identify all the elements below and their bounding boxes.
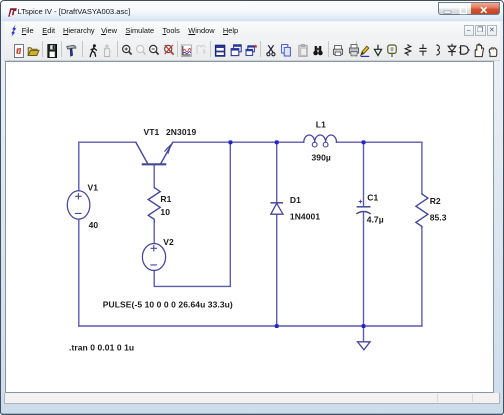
- inductor L1: [304, 135, 337, 142]
- svg-text:D1: D1: [290, 195, 301, 205]
- ground symbol: [358, 342, 371, 350]
- svg-text:.tran 0 0.01 0 1u: .tran 0 0.01 0 1u: [69, 342, 134, 352]
- node dot D1 bottom: [275, 324, 279, 328]
- svg-text:4.7µ: 4.7µ: [367, 215, 384, 225]
- svg-text:L1: L1: [316, 119, 326, 129]
- svg-text:390µ: 390µ: [312, 152, 331, 162]
- svg-text:R1: R1: [160, 194, 171, 204]
- node dot emitter junction: [229, 140, 233, 144]
- capacitor C1 plates: [357, 206, 371, 208]
- resistor R2: [416, 194, 428, 228]
- LTspice logo: [7, 7, 18, 18]
- voltage source V1: [67, 191, 90, 219]
- svg-text:1N4001: 1N4001: [290, 212, 320, 222]
- diode D1: [270, 202, 283, 204]
- svg-text:85.3: 85.3: [430, 212, 447, 222]
- wire V2 return loop: [154, 142, 230, 286]
- wire V1 branch: [78, 142, 80, 326]
- svg-text:C1: C1: [367, 193, 378, 203]
- svg-text:V2: V2: [163, 237, 174, 247]
- svg-text:R2: R2: [430, 196, 441, 206]
- wire R1 to V2: [153, 222, 155, 244]
- node dot C1 top: [362, 140, 366, 144]
- resistor R1: [148, 188, 160, 222]
- svg-text:2N3019: 2N3019: [166, 127, 196, 137]
- svg-text:40: 40: [89, 220, 99, 230]
- wire bottom rail: [79, 325, 422, 327]
- node dot D1 top: [275, 140, 279, 144]
- wire top rail left (V1 to collector): [79, 141, 136, 143]
- svg-text:VT1: VT1: [144, 127, 160, 137]
- svg-text:10: 10: [160, 207, 170, 217]
- wire base to R1: [153, 165, 155, 188]
- voltage source V2: [142, 244, 165, 271]
- wire ground stub: [363, 326, 365, 341]
- svg-text:PULSE(-5 10 0 0 0 26.64u 33.3u: PULSE(-5 10 0 0 0 26.64u 33.3u): [103, 300, 233, 310]
- wire R2 branch: [421, 142, 423, 326]
- transistor Q VT1: [136, 142, 148, 163]
- capacitor C1 plus sign: [359, 200, 362, 203]
- node dot ground junction: [362, 324, 366, 328]
- wire top rail right (emitter to R2): [173, 141, 422, 143]
- wire D1 branch: [276, 142, 278, 326]
- doc icon: [8, 24, 18, 37]
- wire C1 branch: [363, 142, 365, 326]
- svg-text:V1: V1: [88, 183, 99, 193]
